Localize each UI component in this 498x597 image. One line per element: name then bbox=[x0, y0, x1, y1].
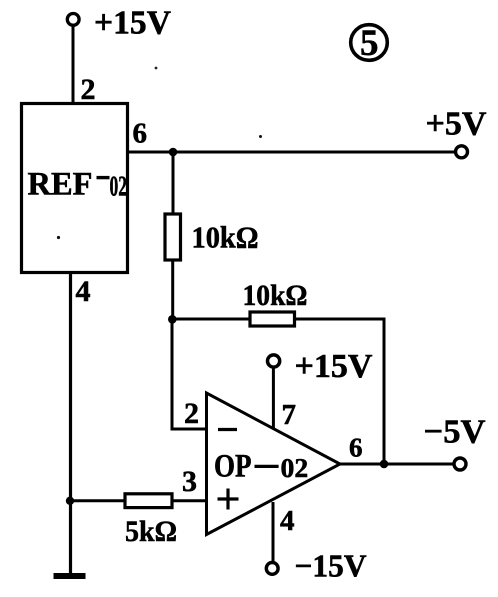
node junction rail/R3 bbox=[66, 497, 74, 505]
svg-text:6: 6 bbox=[349, 433, 363, 463]
svg-text:+5V: +5V bbox=[426, 106, 487, 143]
figure number 5 (circled) bbox=[351, 23, 388, 64]
svg-text:+15V: +15V bbox=[295, 348, 373, 385]
resistor R1 10k (vertical) bbox=[165, 214, 259, 260]
svg-text:2: 2 bbox=[184, 397, 199, 430]
svg-text:REF: REF bbox=[28, 167, 93, 203]
wire R1 bottom to node A bbox=[171, 260, 174, 319]
svg-text:6: 6 bbox=[133, 118, 148, 150]
svg-text:−15V: −15V bbox=[295, 548, 367, 584]
left rail wire REF-02 pin4 to ground bbox=[69, 272, 72, 576]
non-inverting input plus sign bbox=[218, 489, 239, 510]
svg-text:10kΩ: 10kΩ bbox=[243, 279, 308, 312]
terminal +5V output bbox=[426, 106, 487, 158]
inverting input minus sign bbox=[218, 428, 237, 431]
wire node A to R2 left bbox=[170, 318, 251, 321]
resistor R3 5k (horizontal) bbox=[125, 494, 177, 548]
svg-text:4: 4 bbox=[76, 275, 91, 308]
svg-text:7: 7 bbox=[282, 399, 297, 431]
svg-text:OP: OP bbox=[214, 449, 252, 485]
svg-text:3: 3 bbox=[182, 465, 197, 498]
scan speck 2 bbox=[57, 236, 60, 239]
scan speck 4 bbox=[259, 135, 262, 138]
wire REF-02 pin6 to +5V output bbox=[128, 151, 455, 154]
wire R3 right to op-amp pin 3 bbox=[172, 499, 207, 502]
terminal +15V (op-amp pin 7) bbox=[268, 348, 373, 385]
terminal +15V top-left bbox=[67, 5, 171, 42]
svg-text:10kΩ: 10kΩ bbox=[192, 220, 259, 255]
svg-text:−5V: −5V bbox=[424, 414, 486, 451]
svg-text:02: 02 bbox=[281, 452, 309, 483]
wire op-amp output to -5V terminal bbox=[339, 463, 453, 466]
wire node to R1 top bbox=[172, 152, 175, 216]
svg-text:2: 2 bbox=[81, 73, 96, 106]
scan speck 1 bbox=[155, 67, 158, 70]
svg-text:5kΩ: 5kΩ bbox=[125, 515, 177, 548]
terminal -15V (op-amp pin 4) bbox=[266, 548, 366, 584]
wire supply to REF-02 pin 2 bbox=[72, 26, 75, 105]
svg-text:02: 02 bbox=[110, 172, 128, 203]
pin 4 wire (V-) bbox=[272, 502, 275, 562]
ground bbox=[54, 573, 86, 579]
node junction pin6/R1 bbox=[169, 148, 178, 157]
pin 7 wire (V+) bbox=[272, 367, 275, 428]
node junction output/feedback bbox=[380, 460, 389, 469]
wire R2 right to corner and down to output node bbox=[295, 319, 385, 464]
svg-text:+15V: +15V bbox=[94, 5, 171, 42]
wire node A down and right to op-amp pin 2 bbox=[172, 317, 206, 429]
svg-text:5: 5 bbox=[360, 23, 379, 64]
op-amp U2 OP-02 triangle bbox=[207, 393, 341, 535]
node A junction bbox=[168, 315, 177, 324]
IC U1 REF-02 bbox=[22, 104, 128, 273]
terminal -5V output bbox=[424, 414, 486, 471]
svg-text:4: 4 bbox=[280, 505, 295, 537]
wire rail to R3 left bbox=[70, 499, 126, 502]
resistor R2 10k (feedback, horizontal) bbox=[243, 279, 308, 326]
